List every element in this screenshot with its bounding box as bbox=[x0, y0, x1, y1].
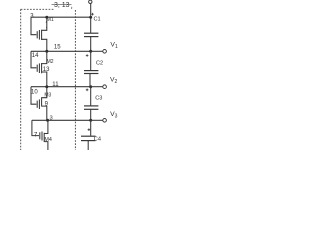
wire V2 to C3 bbox=[90, 87, 92, 106]
node dot V3 bbox=[89, 119, 92, 122]
wire C2 to V2 bbox=[89, 74, 91, 87]
svg-text:13: 13 bbox=[43, 67, 50, 73]
svg-text:9: 9 bbox=[45, 101, 49, 107]
svg-text:C2: C2 bbox=[96, 60, 103, 66]
dashed box right edge bbox=[74, 10, 76, 150]
dashed box left edge bbox=[20, 9, 22, 150]
svg-text:C1: C1 bbox=[94, 17, 101, 23]
svg-text:3: 3 bbox=[30, 13, 34, 19]
svg-text:3: 3 bbox=[50, 116, 53, 122]
transistor M2 bbox=[31, 51, 47, 86]
svg-text:3, 13: 3, 13 bbox=[54, 2, 70, 9]
wire C3 to V3 bbox=[90, 109, 92, 120]
plus sign C2 bbox=[86, 54, 89, 57]
node dot M3 drain bbox=[45, 85, 48, 88]
wire V3 to C4 bbox=[90, 120, 92, 135]
svg-text:11: 11 bbox=[52, 82, 59, 88]
wire V1 to C2 bbox=[90, 51, 92, 70]
plus sign C1 bbox=[91, 13, 94, 16]
terminal circle V3 bbox=[103, 119, 107, 123]
wire V3 tap bbox=[91, 119, 103, 121]
svg-text:M3: M3 bbox=[44, 93, 51, 99]
output terminal circle top bbox=[89, 0, 92, 3]
terminal circle V2 bbox=[103, 85, 107, 89]
capacitor C1 bbox=[84, 33, 98, 36]
transistor M4 bbox=[32, 120, 48, 150]
wire node 15 bbox=[31, 50, 91, 52]
capacitor C4 bbox=[81, 136, 96, 140]
wire node 3 lower bbox=[32, 119, 91, 121]
svg-text:7: 7 bbox=[34, 131, 38, 138]
svg-text:V3: V3 bbox=[110, 111, 118, 119]
transistor M1 bbox=[31, 17, 47, 51]
wire C1 to V1 bbox=[90, 37, 92, 52]
node dot rail top bbox=[89, 16, 92, 19]
svg-text:M1: M1 bbox=[47, 17, 54, 23]
wire node 11 bbox=[31, 86, 91, 88]
wire top rail node 3 bbox=[31, 16, 91, 18]
wire V1 tap bbox=[91, 50, 103, 52]
arrow mark M1 drain lower bbox=[46, 25, 47, 28]
plus sign C4 bbox=[88, 128, 91, 131]
node A dot M1 drain bbox=[45, 16, 48, 19]
node dot M2 drain bbox=[45, 50, 48, 53]
svg-text:14: 14 bbox=[32, 53, 39, 59]
arrow mark M1 drain bbox=[46, 20, 47, 22]
node dot M4 drain bbox=[46, 119, 49, 122]
svg-text:V2: V2 bbox=[110, 77, 118, 85]
svg-text:10: 10 bbox=[31, 89, 38, 95]
terminal circle V1 bbox=[103, 50, 107, 54]
dashed box top edge bbox=[21, 8, 54, 10]
wire rail top bbox=[90, 3, 92, 33]
wire V2 tap bbox=[91, 86, 103, 88]
node dot V1 bbox=[89, 50, 92, 53]
plus sign C3 bbox=[86, 89, 89, 92]
capacitor C2 bbox=[84, 71, 98, 74]
svg-text:C4: C4 bbox=[94, 136, 101, 142]
transistor M3 bbox=[31, 87, 47, 121]
svg-text:V1: V1 bbox=[110, 41, 118, 49]
svg-text:15: 15 bbox=[54, 45, 61, 51]
svg-text:C3: C3 bbox=[95, 96, 102, 102]
capacitor C3 bbox=[84, 106, 98, 109]
svg-text:M2: M2 bbox=[47, 59, 54, 65]
svg-text:M4: M4 bbox=[44, 137, 52, 143]
wire below C4 bbox=[87, 141, 89, 150]
node dot V2 bbox=[89, 85, 92, 88]
